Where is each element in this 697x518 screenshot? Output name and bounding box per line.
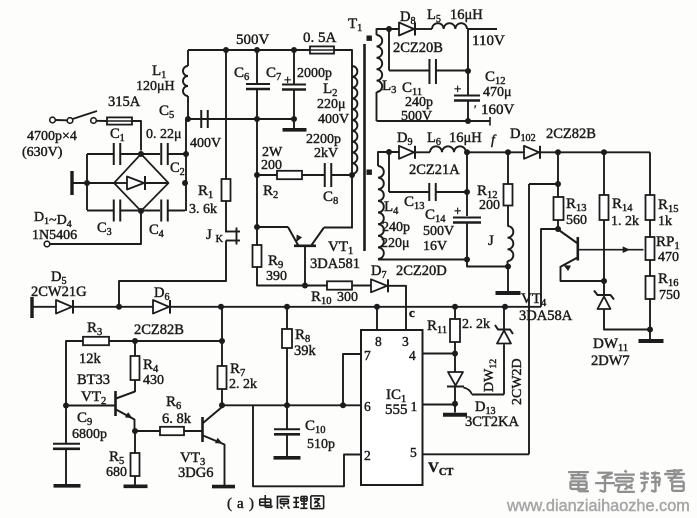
svg-text:+: + — [454, 81, 461, 96]
svg-text:120μH: 120μH — [136, 79, 175, 94]
svg-text:+: + — [284, 72, 291, 87]
svg-text:7: 7 — [364, 348, 371, 363]
svg-text:500V: 500V — [236, 32, 270, 48]
svg-text:4: 4 — [409, 348, 416, 363]
svg-text:315A: 315A — [108, 94, 141, 110]
svg-text:240p: 240p — [405, 95, 433, 110]
svg-text:560: 560 — [566, 213, 587, 228]
svg-text:16μH: 16μH — [449, 130, 482, 146]
svg-text:555: 555 — [385, 402, 408, 418]
svg-text:c: c — [409, 305, 415, 320]
svg-text:6. 8k: 6. 8k — [162, 411, 192, 427]
svg-text:470: 470 — [658, 250, 679, 265]
svg-text:′: ′ — [474, 102, 477, 116]
svg-text:2CZ82B: 2CZ82B — [134, 322, 184, 338]
svg-text:16V: 16V — [423, 239, 447, 254]
svg-text:0. 22μ: 0. 22μ — [146, 127, 182, 142]
svg-text:6800p: 6800p — [72, 427, 107, 442]
svg-text:2000p: 2000p — [297, 66, 332, 81]
svg-text:390: 390 — [266, 269, 287, 284]
svg-text:2CW21G: 2CW21G — [31, 284, 87, 300]
svg-text:240p: 240p — [382, 220, 410, 235]
svg-text:3DA581: 3DA581 — [310, 256, 360, 272]
svg-text:2. 2k: 2. 2k — [462, 317, 490, 332]
svg-text:8: 8 — [375, 334, 382, 349]
svg-text:0. 5A: 0. 5A — [303, 30, 337, 46]
svg-text:3. 6k: 3. 6k — [189, 202, 217, 217]
svg-text:3: 3 — [402, 334, 409, 349]
svg-text:3DG6: 3DG6 — [178, 465, 213, 481]
svg-text:2. 2k: 2. 2k — [229, 377, 257, 392]
svg-text:400V: 400V — [190, 136, 221, 151]
svg-text:2kV: 2kV — [314, 146, 338, 161]
svg-text:2DW7: 2DW7 — [591, 353, 630, 369]
svg-text:4700p×4: 4700p×4 — [27, 129, 77, 144]
svg-text:a: a — [237, 496, 244, 512]
svg-text:www.dianziaihaozhe.com: www.dianziaihaozhe.com — [506, 497, 690, 515]
svg-text:3DA58A: 3DA58A — [519, 308, 573, 324]
svg-text:39k: 39k — [294, 343, 317, 359]
svg-text:J: J — [488, 233, 494, 249]
svg-text:2CZ20B: 2CZ20B — [393, 40, 443, 56]
svg-text:+: + — [454, 203, 461, 218]
svg-text:2: 2 — [364, 448, 371, 463]
svg-text:2CZ21A: 2CZ21A — [409, 162, 460, 178]
svg-text:1: 1 — [411, 399, 418, 414]
svg-text:1N5406: 1N5406 — [32, 228, 77, 243]
svg-text:500V: 500V — [423, 224, 454, 239]
svg-text:220μ: 220μ — [317, 97, 346, 112]
svg-text:J: J — [206, 227, 212, 243]
svg-text:2CW2D: 2CW2D — [510, 358, 525, 405]
svg-text:K: K — [216, 234, 224, 245]
svg-text:1k: 1k — [658, 214, 672, 229]
svg-text:750: 750 — [659, 288, 680, 303]
svg-text:5: 5 — [410, 445, 417, 460]
svg-text:430: 430 — [143, 373, 164, 388]
svg-text:BT33: BT33 — [77, 372, 110, 388]
svg-text:680: 680 — [106, 465, 127, 480]
svg-text:400V: 400V — [318, 112, 349, 127]
svg-text:16μH: 16μH — [450, 7, 483, 23]
svg-text:12k: 12k — [79, 351, 102, 367]
svg-text:3CT2KA: 3CT2KA — [465, 414, 520, 430]
svg-text:(630V): (630V) — [22, 145, 63, 160]
svg-text:500V: 500V — [401, 109, 432, 124]
svg-text:470μ: 470μ — [483, 85, 512, 100]
svg-text:300: 300 — [337, 290, 358, 305]
svg-text:220μ: 220μ — [381, 236, 410, 251]
svg-text:200: 200 — [261, 158, 282, 173]
svg-text:6: 6 — [364, 399, 371, 414]
svg-text:200: 200 — [479, 198, 500, 213]
svg-text:110V: 110V — [472, 33, 505, 49]
svg-text:1. 2k: 1. 2k — [611, 214, 639, 229]
svg-text:510p: 510p — [307, 437, 335, 452]
svg-text:2CZ82B: 2CZ82B — [546, 126, 596, 142]
svg-text:160V: 160V — [481, 102, 515, 118]
svg-text:2CZ20D: 2CZ20D — [396, 263, 447, 279]
svg-text:): ) — [249, 496, 254, 512]
svg-text:2200p: 2200p — [306, 132, 341, 147]
svg-text:(: ( — [227, 496, 232, 512]
